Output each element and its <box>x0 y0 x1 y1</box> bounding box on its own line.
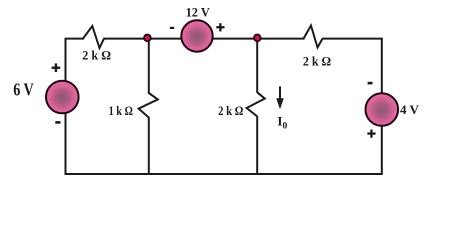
wire left vertical branch <box>65 39 67 174</box>
wire top segment to 12V source <box>104 38 182 40</box>
svg-text:1 k Ω: 1 k Ω <box>109 104 133 118</box>
wire 2kOhm down to bottom <box>256 116 258 174</box>
svg-text:6 V: 6 V <box>13 79 34 99</box>
node A junction dot <box>144 35 151 42</box>
minus sign of 6V source <box>55 121 60 124</box>
svg-text:2 k Ω: 2 k Ω <box>82 48 111 63</box>
plus sign of 4V source <box>367 130 375 138</box>
svg-text:2 k Ω: 2 k Ω <box>218 104 243 118</box>
wire top segment 12V source to node B <box>213 38 305 40</box>
svg-text:4 V: 4 V <box>400 102 420 117</box>
wire 1kOhm down to bottom <box>148 117 150 174</box>
wire bottom horizontal <box>65 173 383 175</box>
node B junction dot <box>254 35 261 42</box>
plus sign of 6V source <box>52 63 61 72</box>
voltage source 6V circle <box>46 81 79 114</box>
resistor 2 kOhm vertical <box>247 92 265 116</box>
wire top-right segment <box>322 38 383 40</box>
voltage source 4V circle <box>366 93 399 126</box>
voltage source 12V circle <box>181 20 212 51</box>
svg-text:2 k Ω: 2 k Ω <box>303 53 331 68</box>
resistor 1 kOhm vertical <box>139 93 158 118</box>
wire node B down to 2kOhm <box>256 39 258 93</box>
wire node A down to 1kOhm <box>148 39 150 94</box>
minus sign of 4V source <box>368 82 373 85</box>
wire right vertical branch <box>381 39 383 174</box>
minus sign of 12V source <box>170 27 174 29</box>
resistor 2 kOhm top-left <box>83 26 104 48</box>
current arrow I0 <box>276 86 284 109</box>
resistor 2 kOhm top-right <box>304 26 323 48</box>
plus sign of 12V source <box>216 23 224 31</box>
svg-text:12 V: 12 V <box>186 5 211 20</box>
wire top-left segment <box>65 38 85 40</box>
